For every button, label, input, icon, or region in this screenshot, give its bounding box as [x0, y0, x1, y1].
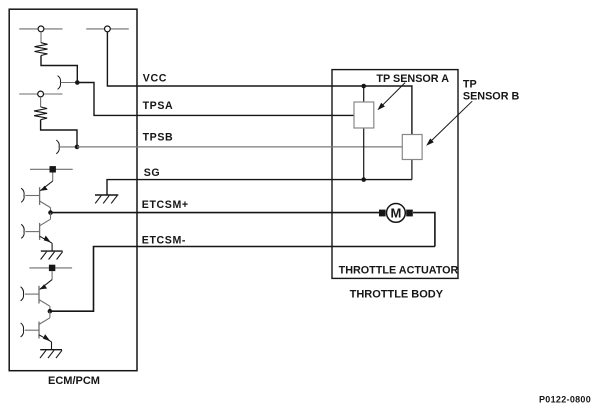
transistor Q2 (NPN) [25, 213, 52, 251]
svg-text:P0122-0800: P0122-0800 [539, 394, 591, 404]
junction dot ETCSM- [48, 309, 53, 314]
connector arc Q4 base [21, 323, 24, 337]
connector arc row1 [58, 76, 61, 90]
connector arc Q2 base [21, 224, 24, 238]
svg-text:ETCSM-: ETCSM- [142, 235, 186, 247]
wire ETCSM+ net [51, 212, 380, 214]
svg-text:SG: SG [144, 167, 161, 179]
ECM/PCM box [9, 9, 137, 371]
terminal circle T3 [38, 91, 44, 97]
wire sensor B bottom to SG [411, 159, 413, 179]
svg-text:TP: TP [463, 78, 477, 90]
wire T1 to R1 [40, 32, 42, 43]
TP sensor A box [354, 102, 374, 128]
wire TPSA net [77, 83, 354, 116]
wire VCC net [107, 32, 363, 86]
terminal line T2 [86, 28, 129, 30]
motor terminal left square [379, 210, 386, 217]
arrow to sensor B [426, 101, 472, 146]
wire T3 to R2 [40, 97, 42, 107]
TP sensor B box [402, 135, 422, 160]
terminal circle T2 [105, 26, 111, 32]
junction dot SG-sensorA [361, 177, 366, 182]
wire arc to junction row1 [60, 82, 77, 84]
svg-text:TPSB: TPSB [143, 132, 174, 144]
resistor R1 [35, 43, 48, 56]
svg-text:TPSA: TPSA [143, 100, 174, 112]
arrow to sensor A [377, 83, 405, 111]
svg-text:VCC: VCC [143, 72, 167, 84]
connector arc Q1 base [21, 188, 24, 202]
ground Q2 [41, 251, 63, 259]
throttle body box [332, 70, 458, 279]
resistor R2 [34, 107, 47, 120]
motor terminal right square [406, 210, 413, 217]
wire R2 bottom elbow to junction [41, 120, 77, 147]
terminal line T1 [19, 28, 62, 30]
power terminal bar Q3/Q4 [29, 267, 72, 269]
svg-text:THROTTLE BODY: THROTTLE BODY [350, 289, 444, 301]
wire SG net [107, 180, 412, 195]
svg-text:THROTTLE ACTUATOR: THROTTLE ACTUATOR [339, 265, 459, 277]
wire ETCSM- net [50, 247, 435, 312]
svg-text:M: M [390, 206, 401, 221]
junction dot row1 [75, 80, 80, 85]
svg-text:ETCSM+: ETCSM+ [142, 199, 189, 211]
wire TPSB net [77, 146, 403, 148]
connector arc row2 [56, 140, 59, 154]
ground Q4 [40, 350, 62, 358]
wire R1 bottom elbow to junction [41, 56, 77, 83]
wire sensor A bottom to SG [363, 128, 365, 180]
ground SG [95, 195, 118, 203]
terminal circle T1 [38, 26, 44, 32]
junction dot VCC [361, 84, 366, 89]
power terminal square Q3/Q4 [49, 265, 55, 271]
wire arc to junction row2 [59, 146, 77, 148]
terminal line T3 [19, 93, 62, 95]
transistor Q4 (NPN) [25, 311, 52, 349]
svg-text:ECM/PCM: ECM/PCM [48, 375, 100, 387]
motor M [387, 204, 406, 223]
power terminal bar Q1/Q2 [30, 168, 73, 170]
power terminal square Q1/Q2 [50, 166, 56, 172]
transistor Q1 (PNP) [25, 173, 52, 213]
svg-text:SENSOR B: SENSOR B [463, 91, 520, 103]
transistor Q3 (PNP) [25, 271, 52, 311]
junction dot ETCSM+ [48, 210, 53, 215]
wire VCC dot to sensor A top [363, 86, 365, 102]
connector arc Q3 base [21, 287, 24, 301]
svg-text:TP SENSOR A: TP SENSOR A [376, 73, 449, 85]
junction dot row2 [75, 145, 80, 150]
wire motor right loop [413, 213, 435, 247]
wire VCC to sensor B top [364, 86, 412, 135]
